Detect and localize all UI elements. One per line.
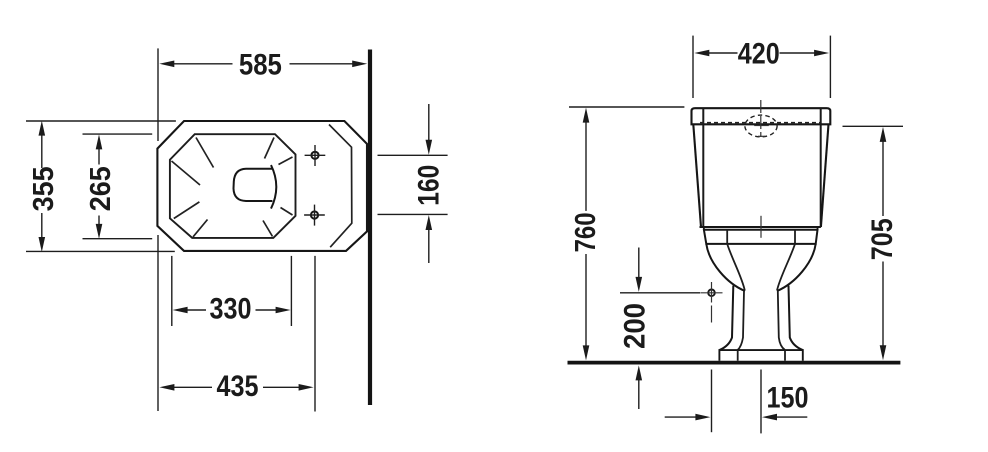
bowl chamfer spoke BR-b bbox=[263, 221, 273, 237]
centerline mid bbox=[760, 216, 762, 238]
bowl chamfer spoke BL-b bbox=[193, 220, 208, 237]
dimension 160 bbox=[378, 104, 448, 263]
ground line (thick) bbox=[568, 361, 901, 365]
bowl chamfer spoke TR-b bbox=[279, 157, 293, 165]
cistern body right wall bbox=[820, 108, 822, 227]
lid seam dashed bbox=[700, 122, 820, 124]
button cross dash bbox=[754, 125, 769, 127]
bowl deck band bbox=[704, 230, 818, 244]
cistern lid bbox=[692, 108, 831, 124]
cistern outer taper left bbox=[693, 124, 701, 227]
bowl chamfer spoke TL-b bbox=[172, 161, 201, 185]
svg-text:355: 355 bbox=[28, 166, 60, 211]
dimension 200 bbox=[620, 248, 701, 410]
bowl chamfer spoke TL-a bbox=[196, 138, 214, 168]
dimension 330 bbox=[172, 256, 292, 326]
svg-text:435: 435 bbox=[217, 370, 259, 403]
deck vertical right bbox=[794, 230, 796, 244]
fixing hole plan upper bbox=[311, 152, 318, 159]
pedestal plinth bbox=[719, 350, 802, 361]
deck vertical left bbox=[726, 230, 728, 244]
bowl chamfer spoke TR-a bbox=[265, 138, 275, 159]
step edges bbox=[703, 227, 705, 230]
cistern outer taper right bbox=[821, 124, 829, 227]
dimension 355 bbox=[26, 121, 176, 251]
svg-text:265: 265 bbox=[85, 166, 117, 211]
svg-text:200: 200 bbox=[619, 303, 652, 349]
svg-text:705: 705 bbox=[866, 218, 899, 260]
bowl chamfer spoke BR-a bbox=[281, 208, 293, 216]
svg-text:150: 150 bbox=[767, 382, 809, 415]
drain outline bbox=[234, 169, 273, 201]
svg-text:160: 160 bbox=[412, 165, 445, 206]
bowl inner right profile bbox=[777, 244, 795, 291]
flush button dashed ellipse bbox=[745, 115, 777, 137]
cistern bottom bbox=[700, 226, 821, 228]
fixing hole front bbox=[708, 290, 715, 297]
dimension 265 bbox=[83, 134, 153, 239]
deck inner edge near wall bbox=[329, 125, 352, 248]
dimension 705 bbox=[843, 126, 904, 347]
svg-text:760: 760 bbox=[570, 212, 602, 252]
fixing hole plan lower bbox=[311, 211, 318, 218]
bowl outer right profile bbox=[777, 244, 816, 291]
bowl chamfer spoke BL-a bbox=[174, 202, 200, 219]
cistern body left wall bbox=[702, 108, 704, 227]
svg-text:420: 420 bbox=[738, 37, 780, 70]
pan outer outline (octagon) bbox=[157, 121, 367, 251]
trap arc bbox=[271, 165, 276, 209]
dimension 435 bbox=[158, 235, 315, 412]
bowl outer left profile bbox=[706, 244, 745, 291]
bowl inner left profile bbox=[727, 244, 745, 291]
dimension 760 bbox=[569, 107, 684, 348]
plinth notch left bbox=[737, 350, 739, 361]
bowl rim outline bbox=[170, 134, 296, 238]
svg-text:585: 585 bbox=[239, 49, 282, 82]
plinth notch right bbox=[784, 350, 786, 361]
dimension 150 bbox=[665, 370, 808, 434]
wall line (thick) bbox=[368, 50, 372, 406]
dimension 585 bbox=[158, 48, 354, 141]
svg-text:330: 330 bbox=[210, 293, 252, 326]
dimension 420 bbox=[693, 36, 830, 98]
centerline top bbox=[760, 100, 762, 137]
